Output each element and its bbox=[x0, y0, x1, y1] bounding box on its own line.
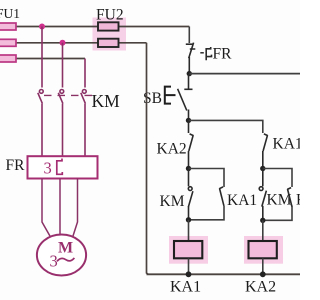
svg-text:FU1: FU1 bbox=[0, 6, 20, 21]
wire L1 to FU2 right side bbox=[119, 26, 190, 28]
contactor KM main contact 2 bbox=[58, 90, 63, 157]
node dot right branch bottom bbox=[260, 218, 265, 223]
node dot left branch bbox=[186, 166, 191, 171]
svg-text:KM: KM bbox=[92, 91, 121, 111]
FR trip device symbol bbox=[206, 47, 211, 60]
node dot below FR bbox=[187, 71, 192, 76]
svg-text:KA1: KA1 bbox=[227, 192, 257, 209]
highlight behind coil KA2 bbox=[244, 236, 283, 264]
node dot L2 bbox=[60, 40, 66, 46]
contact KA2 (NO, left branch) bbox=[189, 120, 194, 168]
highlight behind FU2 bbox=[93, 18, 127, 51]
fuse FU2 cartridge 1 bbox=[98, 22, 119, 30]
coil KA1 bbox=[174, 241, 202, 258]
wire across to right branch bbox=[189, 120, 263, 133]
node dot rail KA2 bbox=[260, 271, 266, 277]
wire phase B vertical bbox=[62, 43, 64, 88]
svg-text:KM: KM bbox=[160, 193, 185, 210]
svg-text:FR: FR bbox=[213, 46, 233, 63]
wire coil KA1 to rail bbox=[188, 258, 190, 274]
parallel loop left branch bbox=[189, 169, 225, 188]
contact KA1 (NO self-hold, left loop) bbox=[219, 187, 224, 206]
wire coil KA2 to rail bbox=[262, 258, 264, 274]
contactor KM main contact 3 bbox=[81, 90, 86, 157]
svg-text:3: 3 bbox=[50, 252, 58, 271]
node dot rail KA1 bbox=[186, 271, 192, 277]
contact KM (NO aux, right branch) bbox=[259, 169, 266, 221]
thermal relay FR heater box bbox=[28, 156, 98, 178]
svg-text:M: M bbox=[58, 240, 73, 257]
wire L2 horizontal bbox=[16, 42, 98, 44]
contactor KM main contact 1 bbox=[38, 90, 43, 157]
motor M 3~ bbox=[37, 235, 86, 276]
FR trip linkage dash bbox=[190, 48, 196, 50]
contact KA1 (NO, right branch top) bbox=[263, 134, 268, 169]
wire L1 horizontal bbox=[16, 26, 98, 28]
wire phase A vertical bbox=[41, 27, 43, 88]
wire to coil KA1 bbox=[188, 220, 190, 241]
bottom rail bbox=[147, 273, 301, 275]
tilde of 3~ bbox=[57, 258, 74, 261]
svg-text:FU2: FU2 bbox=[96, 7, 124, 24]
highlight behind coil KA1 bbox=[169, 236, 208, 264]
svg-text:KM: KM bbox=[267, 192, 292, 209]
node dot left branch bottom bbox=[186, 217, 191, 222]
node dot L1 bbox=[39, 24, 45, 30]
svg-text:KA1: KA1 bbox=[170, 279, 201, 296]
svg-text:FR: FR bbox=[6, 157, 26, 174]
wire phase C vertical with corner bbox=[84, 59, 86, 88]
wire motor lead 2 bbox=[59, 179, 61, 235]
wire L2 after FU2 bbox=[119, 42, 147, 44]
contact KM (NO aux, left branch) bbox=[188, 169, 193, 220]
wire to coil KA2 bbox=[262, 220, 264, 241]
wire motor lead 1 bbox=[42, 179, 50, 237]
svg-text:KA2: KA2 bbox=[245, 279, 276, 296]
node dot below SBE bbox=[186, 118, 191, 123]
contact KA2 (NO self-hold, right loop) bbox=[287, 188, 292, 207]
wire left rail top corner bbox=[188, 27, 190, 44]
fuse FU1 (three cartridges) bbox=[0, 23, 16, 30]
wire neutral drop from FU2 bbox=[147, 43, 149, 274]
node dot right branch bbox=[260, 166, 265, 171]
svg-text:KA1: KA1 bbox=[273, 136, 301, 153]
svg-text:3: 3 bbox=[44, 159, 52, 178]
svg-text:KA2: KA2 bbox=[157, 141, 187, 158]
coil KA2 bbox=[249, 241, 277, 258]
button cap (E symbol) bbox=[165, 87, 176, 104]
parallel loop right branch bbox=[263, 169, 292, 188]
wire to right edge bbox=[189, 73, 300, 75]
wire L3 horizontal bbox=[16, 58, 85, 60]
contact FR (NC, thermal) bbox=[186, 43, 194, 74]
fuse FU2 cartridge 2 bbox=[98, 39, 119, 47]
heater element symbol bbox=[57, 159, 63, 175]
wire motor lead 3 bbox=[73, 179, 78, 237]
svg-text:K: K bbox=[296, 192, 300, 209]
mechanical link dashed bbox=[44, 94, 97, 96]
button SBE (NC stop) bbox=[188, 74, 190, 89]
